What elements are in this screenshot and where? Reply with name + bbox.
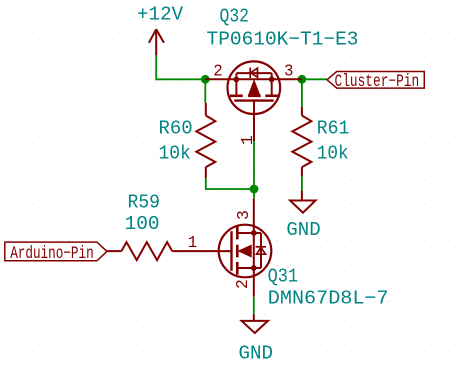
global label Arduino-Pin — [5, 242, 107, 261]
svg-text:Cluster−Pin: Cluster−Pin — [335, 73, 420, 92]
svg-text:Arduino−Pin: Arduino−Pin — [10, 245, 94, 264]
svg-text:10k: 10k — [159, 142, 191, 164]
wire Q32 gate to junction B — [253, 141, 255, 190]
resistor R60 — [196, 103, 215, 178]
svg-text:3: 3 — [284, 61, 294, 80]
wire junction B to Q31 drain — [253, 189, 255, 199]
svg-text:3: 3 — [234, 210, 253, 220]
Q32 substrate arrow — [248, 80, 260, 95]
svg-text:100: 100 — [125, 213, 160, 235]
svg-text:R60: R60 — [159, 118, 193, 140]
transistor Q32 body — [205, 61, 302, 141]
svg-text:10k: 10k — [317, 142, 349, 164]
svg-text:2: 2 — [213, 61, 223, 80]
Q31 body diode — [256, 247, 266, 254]
svg-text:1: 1 — [238, 135, 257, 145]
Q32 pin contact dots — [234, 77, 240, 83]
wire R61 bottom to GND — [301, 176, 303, 190]
Q32 body diode — [250, 68, 257, 79]
resistor R61 — [292, 107, 311, 176]
svg-text:GND: GND — [286, 219, 320, 241]
svg-text:TP0610K−T1−E3: TP0610K−T1−E3 — [207, 28, 359, 50]
junction A (node +12V / Q32 pin 2 / R60) — [201, 75, 210, 84]
svg-text:+12V: +12V — [137, 4, 183, 26]
svg-text:2: 2 — [233, 279, 252, 289]
svg-text:Q32: Q32 — [220, 5, 250, 27]
Q31 pin contact dots — [251, 230, 257, 236]
wire junction C down to R61 — [301, 79, 303, 107]
junction C (node Q32 pin 3 / R61 / Cluster-Pin) — [298, 75, 307, 84]
global label Cluster-Pin — [327, 72, 424, 89]
wire Q31 source to GND — [253, 297, 255, 314]
power symbol +12V — [149, 29, 164, 55]
svg-text:R59: R59 — [128, 191, 161, 213]
ground symbol (under Q31) — [242, 314, 268, 333]
resistor R59 — [107, 242, 172, 260]
svg-text:1: 1 — [188, 233, 198, 252]
wire R60 bottom to junction B — [206, 178, 254, 189]
wire R59 to Q31 gate — [172, 250, 231, 252]
junction B (node Q32 gate / R60 / Q31 drain) — [250, 185, 259, 194]
wire +12V stem to corner — [156, 55, 205, 79]
wire junction A down to R60 — [204, 79, 206, 103]
ground symbol (under R61) — [290, 191, 315, 213]
svg-text:GND: GND — [239, 342, 274, 364]
Q31 substrate arrow — [239, 245, 252, 256]
svg-text:R61: R61 — [317, 118, 350, 140]
wire junction C to Cluster-Pin label — [302, 78, 327, 80]
transistor Q31 body — [219, 199, 272, 297]
svg-text:DMN67D8L−7: DMN67D8L−7 — [268, 288, 389, 310]
svg-text:Q31: Q31 — [268, 266, 299, 288]
